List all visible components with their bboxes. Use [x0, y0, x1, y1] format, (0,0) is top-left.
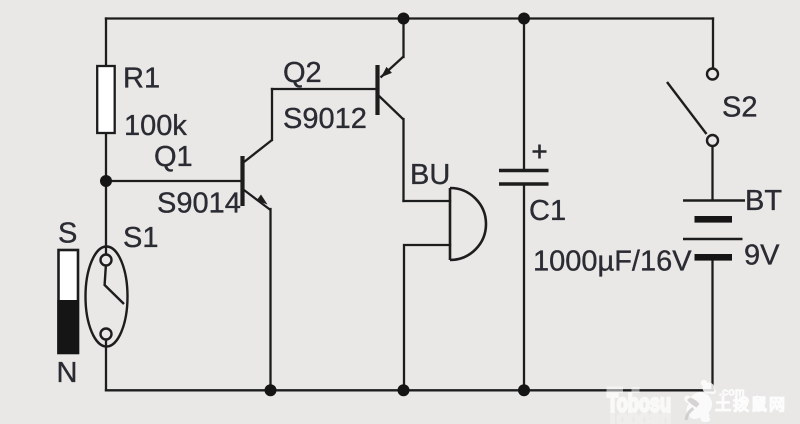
svg-text:S: S: [58, 218, 77, 250]
svg-text:S2: S2: [722, 92, 757, 124]
svg-text:N: N: [57, 357, 78, 389]
svg-text:S9012: S9012: [283, 103, 367, 135]
wire C1 top: [523, 19, 525, 169]
wire Q1 collector vertical: [271, 89, 273, 140]
svg-text:Q1: Q1: [154, 141, 193, 173]
switch S2 top contact: [707, 69, 718, 80]
battery BT negative plate 2: [695, 254, 733, 261]
svg-text:Tobosu: Tobosu: [607, 407, 671, 424]
watermark tobosu logo: [607, 380, 788, 424]
node dot bottom rail / C1: [518, 384, 530, 396]
magnet body (S pole, white): [59, 250, 79, 353]
wire BU top lead: [404, 200, 451, 202]
buzzer BU body: [450, 188, 486, 260]
capacitor C1 plate top: [499, 169, 549, 173]
watermark marmot silhouette: [683, 380, 716, 422]
svg-text:S9014: S9014: [157, 187, 241, 219]
wire node A to S1 top contact: [105, 181, 107, 255]
reed switch S1 envelope: [86, 247, 128, 347]
transistor Q1 base bar: [240, 156, 244, 206]
svg-text:C1: C1: [529, 195, 566, 227]
svg-text:100k: 100k: [124, 110, 187, 142]
wire left vertical to R1: [105, 19, 107, 67]
watermark logo shine notch 2: [632, 387, 640, 393]
wire Q1 base: [106, 180, 241, 182]
resistor R1: [97, 66, 115, 133]
svg-text:9V: 9V: [744, 240, 780, 272]
svg-text:BU: BU: [410, 159, 450, 191]
node dot bottom rail / Q1 emitter: [265, 384, 277, 396]
svg-text:1000µF/16V: 1000µF/16V: [533, 246, 692, 278]
wire BU bottom lead: [404, 245, 450, 390]
transistor Q1 emitter arrow: [257, 195, 268, 205]
node A junction dot (R1/Q1 base/S1): [100, 175, 112, 187]
wire top rail: [106, 17, 713, 19]
svg-text:BT: BT: [745, 185, 782, 217]
svg-text:R1: R1: [123, 63, 160, 95]
svg-text:S1: S1: [123, 222, 158, 254]
transistor Q2 emitter arrow (PNP, points to bar): [381, 67, 392, 77]
wire S1 bottom contact to bottom rail: [105, 340, 107, 390]
node dot bottom rail / BU: [398, 384, 410, 396]
transistor Q2 collector diagonal: [379, 96, 404, 120]
watermark marmot arm shade: [687, 398, 700, 408]
transistor Q2 emitter diagonal: [381, 57, 404, 78]
wire S2 bottom to battery: [711, 146, 713, 200]
switch S2 bottom contact: [707, 135, 718, 146]
transistor Q2 base bar: [375, 65, 379, 115]
wire Q2 base: [272, 88, 376, 90]
battery BT positive plate 1: [683, 199, 745, 201]
wire C1 bottom: [523, 186, 525, 390]
wire battery to bottom rail: [711, 260, 713, 390]
reed switch S1 blade: [105, 267, 124, 305]
switch S2 blade: [667, 82, 707, 134]
reed switch S1 bottom contact: [101, 329, 112, 340]
wire Q2 collector down to BU: [402, 119, 404, 201]
capacitor C1 plus sign: [533, 145, 547, 159]
node dot top rail / C1: [518, 13, 530, 25]
wire Q2 emitter from top rail: [402, 19, 404, 58]
reed switch S1 top contact: [101, 255, 112, 266]
transistor Q1 emitter diagonal: [244, 190, 271, 210]
magnet N pole (black): [57, 300, 79, 354]
svg-text:Q2: Q2: [283, 57, 322, 89]
battery BT negative plate 1: [695, 216, 733, 223]
wire Q1 emitter to bottom rail: [269, 209, 271, 390]
wire R1 bottom to node A: [105, 133, 107, 181]
battery BT positive plate 2: [683, 238, 743, 240]
svg-text:土拨鼠网: 土拨鼠网: [715, 395, 787, 414]
wire S2 top: [712, 19, 714, 69]
capacitor C1 plate bottom: [499, 182, 549, 186]
watermark logo shine notch 1: [607, 387, 624, 394]
watermark marmot tail: [686, 409, 694, 421]
transistor Q1 collector diagonal: [244, 140, 272, 162]
wire bottom rail: [106, 389, 713, 391]
node dot top rail / Q2 emitter: [398, 13, 410, 25]
